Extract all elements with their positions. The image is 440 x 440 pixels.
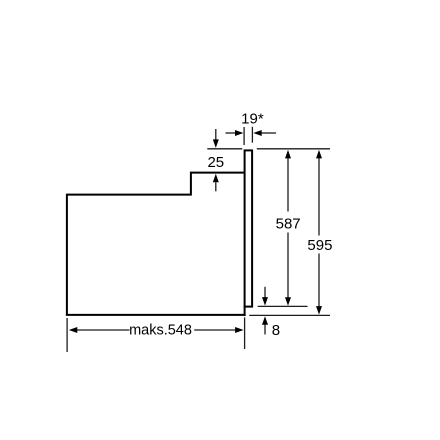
extension line frame bottom right — [258, 305, 308, 307]
svg-text:25: 25 — [207, 154, 224, 171]
extension line maks left — [66, 318, 68, 352]
front frame band — [245, 150, 253, 306]
svg-text:maks.548: maks.548 — [129, 323, 192, 339]
oven body bottom edge — [66, 314, 246, 316]
extension line maks right — [244, 317, 246, 349]
dim 8 arrow down — [264, 287, 266, 298]
svg-text:19*: 19* — [241, 110, 264, 127]
svg-text:595: 595 — [307, 237, 332, 254]
dim 595 line — [318, 158, 320, 236]
dim 19 arrow right-pointing — [226, 132, 236, 134]
dim 25 arrow up — [215, 182, 217, 191]
extension line top left of band — [207, 148, 242, 150]
extension line top right of band — [257, 148, 330, 150]
dim maks.548 line right — [194, 329, 235, 331]
extension line body bottom right — [249, 314, 330, 316]
dim 587 line — [287, 158, 289, 212]
svg-text:8: 8 — [272, 322, 280, 339]
body right edge below band — [244, 306, 246, 316]
extension line 19 right — [251, 127, 253, 143]
extension line 19 left — [243, 127, 245, 145]
dim 8 arrow up — [264, 325, 266, 335]
svg-text:587: 587 — [276, 215, 301, 232]
dim maks.548 line left — [77, 329, 130, 331]
dim 25 arrow down — [215, 129, 217, 140]
oven body outline — [67, 173, 245, 316]
dim 19 arrow left-pointing — [262, 132, 277, 134]
